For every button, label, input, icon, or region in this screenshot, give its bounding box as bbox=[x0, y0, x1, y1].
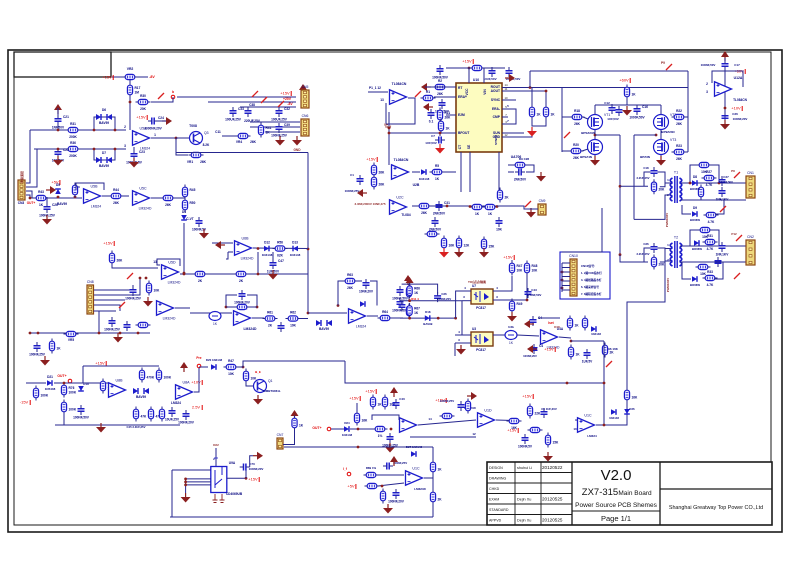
svg-text:PWM48/3V: PWM48/3V bbox=[666, 278, 670, 292]
svg-text:7. 8路程控指水灯: 7. 8路程控指水灯 bbox=[581, 292, 602, 296]
junction T2 snub bbox=[619, 253, 622, 256]
net +15V R91 bbox=[365, 389, 376, 395]
svg-text:R2: R2 bbox=[438, 79, 442, 83]
wire right mid link bbox=[634, 134, 656, 136]
svg-text:R47: R47 bbox=[228, 359, 234, 363]
resistor R95 bbox=[624, 388, 638, 403]
test point P16 bbox=[525, 201, 531, 207]
Pre circle bbox=[197, 364, 201, 368]
U8A chip bbox=[171, 401, 181, 405]
junction out row bbox=[357, 428, 360, 431]
junction long route bbox=[566, 382, 569, 385]
D26 label bbox=[629, 407, 635, 411]
svg-text:C12: C12 bbox=[604, 101, 610, 105]
dual diode D6 bbox=[96, 114, 112, 125]
wire main bus U5A to x308 bbox=[176, 152, 308, 154]
junction row333 b bbox=[137, 332, 140, 335]
junction CN8 a bbox=[139, 277, 142, 280]
svg-text:+15V: +15V bbox=[248, 477, 258, 482]
Q1 value bbox=[263, 389, 281, 393]
wire CN3 row bbox=[26, 191, 34, 198]
U10 pin SYNCB bbox=[494, 135, 498, 145]
svg-text:EXAM: EXAM bbox=[489, 498, 499, 502]
junction vr5 a bbox=[29, 332, 32, 335]
net +10V U12A bbox=[731, 106, 742, 112]
capacitor C38 bbox=[245, 107, 252, 117]
test point P11 bbox=[720, 206, 726, 212]
svg-text:BPSZ24N: BPSZ24N bbox=[581, 131, 595, 135]
svg-text:C22: C22 bbox=[63, 148, 69, 152]
svg-text:2K: 2K bbox=[198, 279, 203, 283]
VR1 value bbox=[200, 160, 207, 164]
wire SUN GND right bbox=[502, 132, 524, 134]
svg-text:+15V: +15V bbox=[522, 394, 532, 399]
OUT+ label3 bbox=[312, 426, 321, 430]
svg-text:1K: 1K bbox=[446, 127, 451, 131]
capacitor C63 bbox=[582, 349, 593, 364]
title block table bbox=[487, 462, 772, 525]
svg-text:D24: D24 bbox=[344, 421, 350, 425]
wire top bus bbox=[530, 70, 688, 72]
diode D5 bbox=[55, 183, 61, 194]
ground CN6 area2 bbox=[292, 136, 302, 146]
svg-text:OUT+: OUT+ bbox=[312, 426, 321, 430]
wire CN10 p2 bbox=[562, 267, 570, 269]
U2C values bbox=[354, 202, 385, 206]
resistor R31 bbox=[66, 122, 81, 139]
C2 value bbox=[506, 77, 521, 81]
junction U2A in bbox=[337, 304, 340, 307]
U10 pin BFOUT bbox=[458, 131, 469, 135]
resistor R35v bbox=[651, 255, 665, 270]
connector CN6 bbox=[301, 114, 309, 136]
svg-text:R44: R44 bbox=[113, 188, 119, 192]
svg-text:26K: 26K bbox=[379, 183, 386, 187]
resistor R63 bbox=[343, 273, 358, 290]
svg-text:2NF,50V: 2NF,50V bbox=[514, 178, 527, 182]
resistor R42b bbox=[483, 204, 498, 216]
svg-text:62K: 62K bbox=[277, 254, 284, 258]
svg-text:+15V: +15V bbox=[544, 347, 554, 352]
wire U12A vert2 bbox=[724, 68, 726, 127]
svg-text:U4A: U4A bbox=[557, 327, 564, 331]
svg-text:C36: C36 bbox=[643, 242, 649, 246]
junction CN10 c bbox=[561, 287, 564, 290]
op-amp U1C2 bbox=[406, 466, 423, 485]
P8 label bbox=[731, 169, 735, 173]
junction U5A out bbox=[175, 137, 178, 140]
wire CN10 p3 bbox=[562, 271, 570, 273]
junction Vref bbox=[388, 132, 391, 135]
svg-text:+15V: +15V bbox=[365, 389, 375, 394]
wire R9 loop2 bbox=[526, 165, 534, 172]
VT1 value bbox=[581, 131, 595, 135]
svg-text:2: 2 bbox=[124, 125, 126, 129]
diode D9 bbox=[692, 206, 697, 217]
C60 value bbox=[440, 399, 454, 403]
U5A pin1 bbox=[154, 133, 156, 137]
svg-text:10UF,50V: 10UF,50V bbox=[483, 77, 496, 81]
wire T2 snub loop bbox=[644, 248, 651, 262]
wire U8A out up bbox=[194, 368, 199, 392]
C43 label bbox=[531, 288, 537, 292]
wire R8 up bbox=[531, 88, 533, 107]
capacitor C39 bbox=[271, 123, 290, 138]
svg-text:20K: 20K bbox=[659, 263, 666, 267]
svg-text:15K: 15K bbox=[553, 441, 560, 445]
wire D21 row bbox=[26, 382, 46, 384]
D24 value bbox=[342, 433, 353, 437]
net +15V U9 bbox=[248, 477, 259, 483]
net +15V R105 bbox=[507, 428, 518, 434]
svg-text:3: 3 bbox=[124, 144, 126, 148]
op-amp U6C bbox=[234, 306, 251, 325]
wire VT2 src bbox=[660, 130, 662, 139]
U1C pin10 bbox=[573, 427, 577, 431]
power flag RT bbox=[421, 83, 431, 91]
junction R26 l bbox=[689, 182, 692, 185]
svg-text:R45: R45 bbox=[190, 188, 196, 192]
svg-text:1NF,1KV: 1NF,1KV bbox=[716, 198, 730, 202]
P12 label bbox=[731, 232, 737, 236]
diode D30 bbox=[694, 240, 699, 246]
svg-text:GND: GND bbox=[493, 135, 501, 139]
U1D pin14 bbox=[428, 417, 432, 421]
D21 value bbox=[45, 387, 56, 391]
wire loop close bbox=[370, 281, 377, 306]
svg-text:U5D: U5D bbox=[168, 260, 176, 264]
resistor R51 bbox=[109, 251, 123, 266]
wire U5E out bbox=[175, 307, 190, 309]
capacitor C5 bbox=[432, 65, 449, 80]
U1C2 chip bbox=[414, 487, 426, 491]
R96 label bbox=[606, 347, 619, 351]
resistor R45 bbox=[182, 185, 195, 200]
wire R44 to U5Db bbox=[122, 195, 129, 197]
wire VT2 drain bbox=[660, 105, 662, 114]
U7 label bbox=[472, 284, 476, 288]
test point P7 bbox=[119, 302, 125, 308]
capacitor C22 bbox=[52, 148, 69, 163]
resistor R70 bbox=[406, 285, 411, 300]
svg-text:R43: R43 bbox=[38, 190, 44, 194]
C7 value2 bbox=[425, 141, 437, 145]
IC U9 body bbox=[211, 467, 227, 493]
net +15V R104 bbox=[522, 394, 533, 400]
svg-text:BP9Z24N: BP9Z24N bbox=[661, 130, 674, 134]
svg-text:26K: 26K bbox=[250, 140, 257, 144]
wire U1D out bbox=[496, 419, 516, 422]
op-amp U8B bbox=[109, 378, 126, 397]
wire C11 row bbox=[222, 135, 236, 137]
svg-text:P8: P8 bbox=[731, 169, 735, 173]
wire C7 up bbox=[439, 133, 441, 136]
svg-text:D20 1N4148: D20 1N4148 bbox=[206, 358, 223, 362]
junction out row b bbox=[390, 428, 393, 431]
junction R92 bbox=[381, 485, 384, 488]
C3 value bbox=[483, 77, 496, 81]
op-amp U5A bbox=[133, 126, 151, 150]
junction V node bbox=[388, 127, 391, 130]
C37 label bbox=[723, 175, 729, 179]
svg-text:Q1: Q1 bbox=[268, 379, 273, 383]
svg-text:D26: D26 bbox=[629, 407, 635, 411]
diode D24 bbox=[344, 426, 349, 432]
svg-text:TL084CN: TL084CN bbox=[394, 158, 409, 162]
D9 value bbox=[690, 218, 700, 222]
capacitor C2 bbox=[506, 67, 513, 77]
connector CN8 bbox=[87, 280, 94, 314]
wire U11B out bbox=[418, 420, 476, 425]
resistor R55 bbox=[146, 281, 160, 296]
net +15V U8B bbox=[95, 361, 106, 367]
svg-text:U1C: U1C bbox=[584, 413, 592, 417]
svg-text:14: 14 bbox=[428, 417, 432, 421]
wire U9 p4 bbox=[186, 484, 211, 486]
U10 pin SE bbox=[467, 144, 471, 149]
wire R64 right bbox=[391, 317, 403, 319]
wire U7 p2 bbox=[462, 300, 471, 302]
junction CN8 b bbox=[145, 277, 148, 280]
R114 label bbox=[411, 297, 419, 301]
diode D25 bbox=[611, 409, 616, 415]
junction CN10 b bbox=[561, 279, 564, 282]
junction row333 a bbox=[119, 332, 122, 335]
wire GND right bbox=[502, 131, 532, 137]
ground R51b bbox=[439, 248, 449, 258]
wire U6C out bbox=[252, 317, 264, 319]
D17 value bbox=[591, 332, 601, 336]
svg-text:T2: T2 bbox=[674, 236, 678, 240]
svg-text:C16: C16 bbox=[642, 105, 648, 109]
junction C22-R36 bbox=[57, 148, 60, 151]
svg-text:U5C: U5C bbox=[139, 186, 147, 190]
wire SYNC right bbox=[502, 99, 516, 101]
resistor R75 bbox=[61, 400, 76, 415]
wire AOUT right bbox=[502, 90, 545, 92]
wire x184 vertical bbox=[183, 223, 185, 273]
wire opto up bbox=[511, 260, 513, 262]
D8 value bbox=[690, 187, 700, 191]
U10 pin ERA- bbox=[492, 107, 500, 111]
wire U9 p3 bbox=[186, 481, 211, 483]
wire R30b loop2 bbox=[711, 230, 719, 246]
wire U5B out bbox=[102, 195, 110, 197]
resistor R80 bbox=[156, 368, 171, 383]
svg-text:U6B: U6B bbox=[242, 236, 250, 240]
U12A pin3 bbox=[706, 90, 708, 94]
wire U5A out to Q3 bbox=[176, 137, 189, 139]
capacitor C23 bbox=[126, 150, 145, 165]
svg-text:1K: 1K bbox=[551, 113, 556, 117]
svg-text:R47: R47 bbox=[517, 264, 523, 268]
ground U8 rail bbox=[96, 423, 106, 433]
D16 label bbox=[554, 325, 560, 329]
wire U3b out bbox=[517, 335, 539, 336]
svg-text:C21: C21 bbox=[63, 115, 69, 119]
resistor R11 bbox=[437, 108, 451, 123]
wire CN6 row1 bbox=[250, 121, 300, 123]
ground below VT4 bbox=[590, 156, 600, 166]
ground below C7 bbox=[435, 144, 445, 154]
svg-text:C23: C23 bbox=[139, 150, 145, 154]
ground below VT3 bbox=[656, 156, 666, 166]
capacitor C6 bbox=[435, 99, 450, 114]
diode D18 bbox=[78, 386, 84, 391]
U10 pin E2M bbox=[458, 113, 465, 117]
svg-text:10K: 10K bbox=[251, 377, 258, 381]
svg-text:BO66W: BO66W bbox=[690, 187, 700, 191]
resistor R52a bbox=[193, 271, 208, 283]
mosfet VT3 bbox=[654, 138, 677, 155]
wire R48 down bbox=[526, 274, 528, 300]
svg-text:2K: 2K bbox=[239, 279, 244, 283]
capacitor C1 bbox=[357, 175, 364, 185]
svg-text:D7: D7 bbox=[102, 151, 106, 155]
svg-text:R76: R76 bbox=[69, 386, 75, 390]
svg-text:ERA-: ERA- bbox=[492, 107, 500, 111]
wire R3 to caps bbox=[483, 67, 505, 69]
wire VT3 src bbox=[660, 155, 662, 160]
svg-text:Q3: Q3 bbox=[204, 131, 209, 135]
T2 pin1 bbox=[667, 243, 669, 247]
svg-text:-15V: -15V bbox=[20, 400, 29, 405]
capacitor C17 bbox=[722, 60, 729, 70]
pin3 label bbox=[124, 144, 126, 148]
svg-text:D5: D5 bbox=[56, 183, 60, 187]
I_f circle bbox=[347, 472, 351, 476]
wire R63 loop bbox=[338, 281, 344, 306]
wire C51 loop bbox=[226, 295, 237, 307]
svg-text:100NF,50V: 100NF,50V bbox=[719, 180, 733, 184]
capacitor C61 bbox=[541, 408, 548, 418]
Pre label bbox=[196, 356, 201, 360]
wire R23 right bbox=[685, 151, 688, 153]
wire U4A long bbox=[571, 340, 604, 342]
svg-text:D12: D12 bbox=[264, 241, 270, 245]
svg-text:D4: D4 bbox=[182, 210, 186, 214]
D7 label bbox=[102, 151, 106, 155]
wire T2 pin1 link bbox=[660, 249, 671, 263]
wire Q3 down VR1 bbox=[175, 138, 177, 153]
resistor R22 bbox=[672, 109, 687, 126]
U10 pin VIN bbox=[483, 89, 487, 95]
ground mid bbox=[113, 333, 123, 343]
svg-text:R62: R62 bbox=[290, 311, 296, 315]
svg-text:+10V: +10V bbox=[191, 380, 201, 385]
D3 value bbox=[419, 177, 430, 181]
U10 pin GND bbox=[493, 135, 501, 139]
resistor R53b bbox=[481, 237, 495, 252]
capacitor C13 bbox=[616, 106, 623, 116]
capacitor C4b bbox=[530, 316, 543, 326]
wire V+ node bbox=[388, 112, 390, 165]
resistor R49b bbox=[509, 299, 522, 314]
svg-text:1000NF,20V: 1000NF,20V bbox=[144, 127, 162, 131]
svg-text:U10: U10 bbox=[473, 78, 479, 82]
op-amp U5B bbox=[84, 184, 102, 208]
ground U5 area bbox=[199, 229, 209, 239]
svg-text:+20V: +20V bbox=[283, 97, 292, 101]
P9 label bbox=[661, 61, 665, 65]
junction CN3 row bbox=[29, 197, 32, 200]
svg-text:P9: P9 bbox=[661, 61, 665, 65]
U2D chip label bbox=[392, 82, 407, 86]
power flag R66 bbox=[406, 277, 414, 287]
svg-text:4.7K: 4.7K bbox=[707, 283, 714, 287]
svg-text:C36: C36 bbox=[441, 292, 447, 296]
svg-text:BPSZ4N: BPSZ4N bbox=[580, 155, 592, 159]
ground R52b bbox=[454, 248, 464, 258]
svg-text:-8V: -8V bbox=[287, 102, 293, 106]
net +15V U5D bbox=[103, 241, 114, 247]
svg-text:100NF,20V: 100NF,20V bbox=[733, 117, 748, 121]
junction R49 bbox=[74, 196, 77, 199]
power flag U12A bbox=[721, 51, 729, 61]
svg-text:VR4: VR4 bbox=[236, 140, 242, 144]
wire out row bbox=[331, 428, 344, 430]
wire CN8 p3 bbox=[94, 299, 125, 301]
svg-text:100NF,25V: 100NF,25V bbox=[440, 399, 454, 403]
svg-text:2.2UF,45V: 2.2UF,45V bbox=[636, 176, 649, 180]
I_f label bbox=[343, 467, 348, 471]
svg-text:26K: 26K bbox=[165, 203, 172, 207]
wire U5C out bbox=[151, 197, 162, 199]
svg-text:LM324: LM324 bbox=[91, 204, 101, 208]
svg-text:C24: C24 bbox=[158, 116, 164, 120]
op-amp U1C bbox=[578, 413, 595, 432]
svg-text:+15V: +15V bbox=[102, 75, 112, 80]
junction D5 bbox=[57, 196, 60, 199]
svg-text:D9: D9 bbox=[693, 206, 697, 210]
resistor R60 bbox=[235, 304, 250, 309]
net +5V row bbox=[347, 484, 356, 490]
capacitor C70 bbox=[240, 464, 250, 471]
C36c value bbox=[437, 297, 451, 301]
U2B chip label bbox=[394, 158, 409, 162]
op-amp U6B bbox=[235, 236, 254, 260]
U10 pin SYNC bbox=[491, 98, 501, 102]
C13 value bbox=[607, 117, 619, 121]
svg-text:26K: 26K bbox=[445, 116, 452, 120]
svg-text:Dejin Xu: Dejin Xu bbox=[517, 519, 531, 523]
power flag C21 bbox=[54, 104, 62, 114]
svg-text:+15V: +15V bbox=[95, 361, 105, 366]
svg-text:12K: 12K bbox=[464, 244, 471, 248]
wire opto1 feed bbox=[456, 291, 471, 318]
wire CN3 pin2 up bbox=[26, 149, 37, 187]
svg-text:B_E: B_E bbox=[255, 370, 261, 374]
D22 label bbox=[213, 443, 219, 447]
test point P8 bbox=[734, 172, 740, 178]
svg-text:C36: C36 bbox=[732, 112, 738, 116]
svg-text:+15V: +15V bbox=[349, 396, 359, 401]
D20 label bbox=[206, 358, 223, 362]
optocoupler U7 internals bbox=[474, 291, 489, 302]
wire T1 snub link bbox=[620, 185, 648, 187]
resistor R91 bbox=[370, 395, 382, 410]
T2 pin2 bbox=[667, 258, 669, 262]
svg-text:1M: 1M bbox=[135, 91, 140, 95]
D18b value bbox=[423, 322, 432, 326]
resistor R90h bbox=[373, 426, 388, 438]
wire E2M row bbox=[446, 114, 456, 116]
OUT+ circle2 bbox=[68, 379, 72, 383]
junction VR2 net bbox=[129, 101, 132, 104]
svg-text:1K: 1K bbox=[414, 311, 419, 315]
wire CN8 pin6 down bbox=[94, 311, 100, 333]
svg-text:+15V: +15V bbox=[136, 115, 146, 120]
